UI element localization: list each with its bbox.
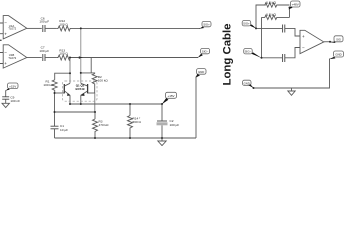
svg-text:+48V: +48V: [292, 3, 299, 7]
svg-text:100 Ω: 100 Ω: [59, 23, 68, 27]
svg-text:Long Cable: Long Cable: [222, 23, 234, 85]
svg-text:470 kΩ: 470 kΩ: [99, 123, 110, 127]
svg-text:GND: GND: [335, 53, 341, 57]
svg-text:SIG+: SIG+: [243, 22, 250, 26]
svg-text:+: +: [4, 31, 7, 36]
svg-text:SIG−: SIG−: [202, 50, 209, 54]
svg-text:100 kΩ: 100 kΩ: [98, 78, 109, 82]
svg-text:−: −: [4, 21, 7, 26]
svg-text:100 µF: 100 µF: [170, 123, 180, 127]
svg-text:−: −: [302, 45, 305, 50]
svg-text:+: +: [4, 61, 7, 66]
svg-text:100 kΩ: 100 kΩ: [43, 83, 54, 87]
svg-text:+15V: +15V: [167, 94, 174, 98]
svg-text:+15V: +15V: [9, 84, 16, 88]
svg-text:TL072: TL072: [8, 27, 16, 31]
svg-text:100 Ω: 100 Ω: [59, 52, 68, 56]
svg-text:GND: GND: [244, 81, 250, 85]
svg-text:6.8 kΩ: 6.8 kΩ: [266, 13, 276, 17]
svg-text:SIG: SIG: [336, 37, 341, 41]
svg-text:SIG+: SIG+: [203, 23, 210, 27]
svg-text:+: +: [302, 34, 305, 39]
svg-text:BC549: BC549: [76, 87, 85, 91]
svg-text:SIG−: SIG−: [245, 50, 252, 54]
svg-text:GND: GND: [198, 70, 204, 74]
svg-text:560 Ω: 560 Ω: [133, 120, 142, 124]
svg-text:100 µF: 100 µF: [39, 49, 49, 53]
svg-text:−: −: [4, 50, 7, 55]
svg-text:100 nF: 100 nF: [10, 99, 20, 103]
svg-text:6.8 kΩ: 6.8 kΩ: [266, 1, 276, 5]
svg-text:10 µF: 10 µF: [60, 128, 68, 132]
svg-text:TL072: TL072: [8, 56, 16, 60]
svg-text:100 µF: 100 µF: [39, 20, 49, 24]
